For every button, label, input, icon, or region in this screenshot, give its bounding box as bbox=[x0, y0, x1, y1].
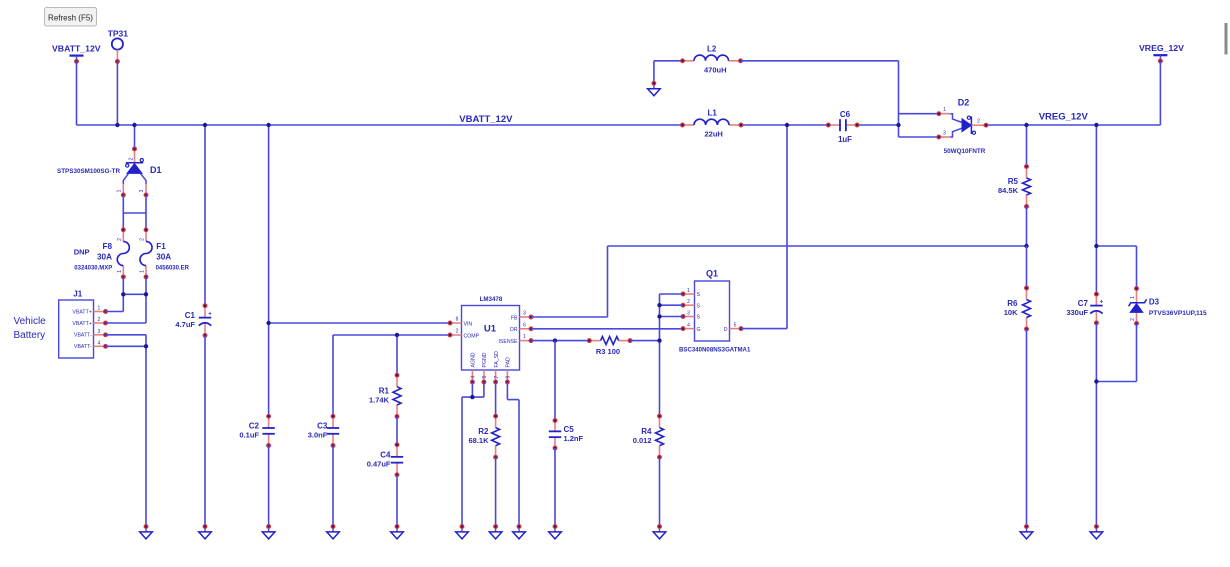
wire C3 column bbox=[332, 335, 334, 416]
wire COMP to R1 bbox=[396, 335, 398, 375]
wire C1 to ground bbox=[204, 335, 206, 526]
wire D1 anode3 down bbox=[145, 195, 147, 230]
svg-text:0.012: 0.012 bbox=[633, 436, 652, 445]
wire bus to C2 bbox=[268, 125, 270, 416]
svg-text:S: S bbox=[697, 292, 701, 298]
svg-text:22uH: 22uH bbox=[705, 130, 723, 139]
diode D2 50WQ10FNTR bbox=[937, 98, 988, 155]
wire bus to C1 bbox=[204, 125, 206, 306]
junction F1-jumper bbox=[144, 292, 148, 296]
wire L2 left to ground leg bbox=[654, 60, 683, 62]
svg-text:TP31: TP31 bbox=[108, 29, 129, 39]
ground C1 bbox=[199, 525, 212, 539]
svg-text:VBATT_12V: VBATT_12V bbox=[52, 43, 101, 53]
svg-text:+: + bbox=[208, 312, 212, 318]
wire D3 to C7 column bottom bbox=[1096, 381, 1136, 383]
svg-text:Refresh (F5): Refresh (F5) bbox=[48, 14, 93, 23]
svg-text:1.2nF: 1.2nF bbox=[564, 434, 584, 443]
wire ISENSE to R3 bbox=[531, 340, 589, 342]
ground C5 bbox=[549, 525, 562, 539]
svg-text:D: D bbox=[724, 327, 728, 333]
svg-text:U1: U1 bbox=[484, 324, 497, 335]
capacitor C2 bbox=[239, 415, 274, 448]
junction VREG C7 bbox=[1094, 123, 1098, 127]
svg-text:1: 1 bbox=[117, 189, 123, 192]
wire J1 pin3 bbox=[106, 334, 147, 336]
junction pin3-pin4 bbox=[144, 344, 148, 348]
svg-text:330uF: 330uF bbox=[1066, 308, 1088, 317]
wire Q1 pin3 to rail bbox=[660, 316, 684, 318]
svg-text:R3 100: R3 100 bbox=[596, 347, 620, 356]
wire C5 to ground bbox=[554, 448, 556, 527]
wire AGND down to ground bbox=[461, 397, 463, 526]
junction C2 VIN bbox=[266, 321, 270, 325]
svg-text:PTVS36VP1UP,115: PTVS36VP1UP,115 bbox=[1149, 310, 1207, 317]
svg-text:R5: R5 bbox=[1008, 177, 1019, 186]
svg-text:PGND: PGND bbox=[482, 352, 488, 367]
ground R4 bbox=[653, 525, 666, 539]
svg-text:50WQ10FNTR: 50WQ10FNTR bbox=[944, 148, 986, 155]
svg-text:3.0nF: 3.0nF bbox=[308, 430, 328, 439]
svg-text:1uF: 1uF bbox=[838, 135, 852, 144]
svg-text:1: 1 bbox=[1130, 296, 1136, 299]
svg-text:VIN: VIN bbox=[464, 321, 473, 327]
wire J1 pin4 bbox=[106, 345, 147, 347]
wire VIN line bbox=[269, 322, 450, 324]
svg-text:3: 3 bbox=[943, 130, 946, 136]
svg-text:C4: C4 bbox=[380, 450, 391, 459]
svg-text:STPS30SM100SG-TR: STPS30SM100SG-TR bbox=[57, 168, 120, 175]
wire R2 to ground bbox=[495, 457, 497, 526]
wire VBATT_12V bus bbox=[77, 124, 683, 126]
svg-text:1: 1 bbox=[943, 107, 946, 113]
capacitor C1 bbox=[175, 304, 212, 337]
fuse F8 bbox=[74, 228, 129, 279]
svg-text:1: 1 bbox=[98, 306, 101, 312]
wire C2 to ground bbox=[268, 446, 270, 527]
junction bus D1 bbox=[132, 123, 136, 127]
svg-text:2: 2 bbox=[140, 238, 146, 241]
fuse F1 bbox=[140, 228, 190, 279]
wire jumper fuse bottoms bbox=[123, 293, 146, 295]
wire Q1 drain to switch node bbox=[741, 328, 787, 330]
wire C3 to ground bbox=[332, 446, 334, 527]
terminal VREG_12V bbox=[1153, 55, 1167, 63]
wire C4 to ground bbox=[396, 475, 398, 527]
wire Q1 source rail bbox=[659, 294, 661, 416]
wire D2 input vertical bbox=[898, 61, 900, 137]
resistor R4 bbox=[633, 414, 664, 459]
svg-text:3: 3 bbox=[98, 329, 101, 335]
svg-text:L1: L1 bbox=[708, 109, 718, 118]
junction rail ISENSE bbox=[657, 338, 661, 342]
svg-text:C1: C1 bbox=[185, 311, 196, 320]
wire FB vertical bbox=[607, 246, 609, 317]
ground R2 bbox=[489, 525, 502, 539]
wire R5 to FB node bbox=[1026, 207, 1028, 247]
resistor R6 bbox=[1004, 286, 1031, 331]
svg-text:R4: R4 bbox=[641, 427, 652, 436]
ground C7 bbox=[1090, 525, 1103, 539]
svg-text:R2: R2 bbox=[478, 427, 489, 436]
svg-text:4.7uF: 4.7uF bbox=[175, 320, 195, 329]
svg-text:FA_SD: FA_SD bbox=[494, 351, 500, 368]
svg-text:30A: 30A bbox=[97, 252, 112, 261]
svg-text:68.1K: 68.1K bbox=[468, 436, 489, 445]
svg-text:2: 2 bbox=[1130, 318, 1136, 321]
wire R3 to Q1 source rail bbox=[630, 340, 659, 342]
wire R4 to ground bbox=[659, 457, 661, 526]
svg-text:L2: L2 bbox=[707, 44, 717, 53]
svg-text:0324030.MXP: 0324030.MXP bbox=[74, 265, 112, 271]
junction bus switch node bbox=[785, 123, 789, 127]
svg-text:C7: C7 bbox=[1078, 299, 1089, 308]
wire F1 bottom bbox=[145, 277, 147, 323]
wire J1 pin1 to F8 bbox=[106, 311, 124, 313]
ground R6 bbox=[1020, 525, 1033, 539]
svg-text:C2: C2 bbox=[249, 421, 260, 430]
wire TP31 to bus bbox=[116, 62, 118, 126]
svg-text:C5: C5 bbox=[564, 425, 575, 434]
wire Q1 pin2 to rail bbox=[660, 304, 684, 306]
wire VREG to R5 bbox=[1026, 125, 1028, 167]
svg-text:1: 1 bbox=[687, 288, 690, 294]
svg-text:3: 3 bbox=[139, 189, 145, 192]
svg-text:7: 7 bbox=[494, 376, 500, 379]
svg-text:30A: 30A bbox=[156, 252, 171, 261]
svg-text:G: G bbox=[697, 327, 701, 333]
svg-text:1: 1 bbox=[117, 270, 123, 273]
transistor Q1 BSC340N08NS3GATMA1 bbox=[679, 269, 751, 354]
test point TP31 bbox=[108, 29, 129, 64]
junction rail pin2 bbox=[657, 303, 661, 307]
ground C3 bbox=[327, 525, 340, 539]
wire PAD leg bbox=[506, 382, 508, 400]
svg-text:+: + bbox=[1100, 300, 1104, 306]
svg-text:2: 2 bbox=[98, 317, 101, 323]
wire bus to D1 bbox=[134, 125, 136, 149]
wire J1 pin2 to F1 bbox=[106, 322, 147, 324]
terminal VBATT_12V bbox=[70, 56, 84, 64]
svg-text:9: 9 bbox=[506, 376, 512, 379]
wire Q1 pin1 to rail bbox=[660, 293, 684, 295]
wire R1 to C4 bbox=[396, 417, 398, 445]
svg-text:F1: F1 bbox=[156, 242, 166, 251]
svg-text:BSC340N08NS3GATMA1: BSC340N08NS3GATMA1 bbox=[679, 346, 751, 353]
wire PAD join bbox=[507, 399, 519, 401]
junction D2 input bus bbox=[896, 123, 900, 127]
svg-text:0.1uF: 0.1uF bbox=[239, 430, 259, 439]
ground C4 bbox=[391, 525, 404, 539]
svg-text:2: 2 bbox=[456, 329, 459, 335]
op-amp U1 LM3478 bbox=[448, 296, 533, 384]
junction bus TP31 bbox=[115, 123, 119, 127]
svg-text:5: 5 bbox=[482, 376, 488, 379]
wire J1 pin3 down to ground bbox=[145, 335, 147, 527]
svg-text:Q1: Q1 bbox=[706, 269, 718, 279]
svg-text:F8: F8 bbox=[102, 242, 112, 251]
junction FB node bbox=[1024, 244, 1028, 248]
junction bus C2 bbox=[266, 123, 270, 127]
svg-text:R6: R6 bbox=[1007, 299, 1018, 308]
wire VBATT terminal to bus bbox=[76, 61, 78, 125]
svg-text:1: 1 bbox=[523, 334, 526, 340]
svg-text:10K: 10K bbox=[1004, 308, 1018, 317]
svg-text:C6: C6 bbox=[840, 110, 851, 119]
wire COMP line bbox=[333, 334, 450, 336]
wire VREG terminal leg bbox=[1159, 61, 1161, 125]
ground L2 bbox=[648, 82, 661, 96]
wire D1 anode1 down bbox=[122, 195, 124, 230]
wire FB node to R6 bbox=[1026, 246, 1028, 288]
scrollbar thumb bbox=[1225, 23, 1228, 55]
svg-text:Battery: Battery bbox=[14, 330, 46, 341]
svg-text:VBATT-: VBATT- bbox=[74, 344, 92, 350]
junction VREG R5 bbox=[1024, 123, 1028, 127]
junction C7 D3 top bbox=[1094, 244, 1098, 248]
svg-text:4: 4 bbox=[687, 322, 690, 328]
ground C2 bbox=[262, 525, 275, 539]
svg-text:1: 1 bbox=[140, 270, 146, 273]
svg-text:4: 4 bbox=[98, 340, 101, 346]
wire AGND-PGND join bbox=[462, 396, 484, 398]
wire PAD down to ground bbox=[518, 400, 520, 527]
ground J1 bbox=[140, 525, 153, 539]
wire AGND leg bbox=[471, 382, 473, 397]
resistor R5 bbox=[998, 165, 1031, 209]
wire jumper between anode columns bbox=[123, 212, 146, 214]
svg-text:5: 5 bbox=[734, 322, 737, 328]
capacitor C4 bbox=[367, 443, 403, 477]
wire D3 column top bbox=[1136, 246, 1138, 289]
svg-text:Vehicle: Vehicle bbox=[14, 316, 47, 327]
junction F8-jumper bbox=[121, 292, 125, 296]
svg-text:VBATT-: VBATT- bbox=[74, 333, 92, 339]
junction C7 D3 bottom bbox=[1094, 379, 1098, 383]
svg-text:3: 3 bbox=[523, 311, 526, 317]
diode D3 PTVS36VP1UP,115 bbox=[1129, 287, 1207, 326]
svg-text:AGND: AGND bbox=[471, 352, 477, 367]
resistor R1 bbox=[369, 373, 401, 418]
svg-text:DNP: DNP bbox=[74, 247, 90, 256]
junction bus C1 bbox=[203, 123, 207, 127]
junction AGND join bbox=[470, 395, 474, 399]
svg-text:D1: D1 bbox=[150, 165, 162, 175]
svg-text:VBATT_12V: VBATT_12V bbox=[459, 114, 513, 125]
wire FA_SD to R2 bbox=[495, 382, 497, 416]
refresh button bbox=[45, 8, 97, 27]
svg-text:1.74K: 1.74K bbox=[369, 395, 390, 404]
wire C5 column bbox=[554, 341, 556, 421]
wire C7 to D3 top bbox=[1096, 245, 1136, 247]
svg-text:VBATT+: VBATT+ bbox=[72, 309, 91, 315]
svg-text:R1: R1 bbox=[379, 386, 390, 395]
wire L2 right bbox=[741, 60, 899, 62]
wire F8 bottom bbox=[122, 277, 124, 312]
junction COMP R1 bbox=[395, 333, 399, 337]
svg-text:S: S bbox=[697, 315, 701, 321]
svg-text:LM3478: LM3478 bbox=[480, 296, 503, 303]
wire DR line to Q1 gate bbox=[531, 328, 683, 330]
wire VREG_12V bus bbox=[986, 124, 1160, 126]
svg-text:DR: DR bbox=[510, 327, 518, 333]
wire to D2 pin1 bbox=[899, 113, 939, 115]
wire D3 bottom bbox=[1136, 323, 1138, 381]
resistor R2 bbox=[468, 414, 499, 459]
connector J1 bbox=[59, 290, 108, 358]
svg-text:J1: J1 bbox=[73, 290, 82, 299]
svg-text:3: 3 bbox=[687, 310, 690, 316]
svg-text:4: 4 bbox=[471, 376, 477, 379]
svg-text:84.5K: 84.5K bbox=[998, 186, 1019, 195]
wire VREG to C7 bbox=[1095, 125, 1097, 294]
wire PGND leg bbox=[483, 382, 485, 397]
ground PAD bbox=[513, 525, 526, 539]
svg-text:2: 2 bbox=[128, 157, 134, 160]
capacitor C7 bbox=[1066, 292, 1103, 324]
ground AGND bbox=[456, 525, 469, 539]
wire bus L1 to C6 bbox=[741, 124, 828, 126]
wire switch node vertical bbox=[786, 125, 788, 329]
capacitor C6 bbox=[827, 110, 859, 144]
svg-text:ISENSE: ISENSE bbox=[498, 339, 518, 345]
svg-text:2: 2 bbox=[117, 238, 123, 241]
svg-text:8: 8 bbox=[456, 317, 459, 323]
svg-text:D2: D2 bbox=[958, 98, 970, 108]
svg-text:FB: FB bbox=[511, 315, 518, 321]
svg-text:2: 2 bbox=[977, 119, 980, 125]
capacitor C3 bbox=[308, 415, 339, 448]
svg-text:6: 6 bbox=[523, 322, 526, 328]
svg-text:470uH: 470uH bbox=[704, 65, 727, 74]
svg-text:S: S bbox=[697, 303, 701, 309]
svg-text:VREG_12V: VREG_12V bbox=[1039, 111, 1089, 122]
svg-text:VREG_12V: VREG_12V bbox=[1139, 43, 1184, 53]
svg-text:2: 2 bbox=[687, 299, 690, 305]
svg-text:0456030.ER: 0456030.ER bbox=[156, 265, 190, 271]
wire to D2 pin3 bbox=[899, 136, 939, 138]
resistor R3 bbox=[588, 337, 632, 356]
inductor L1 bbox=[681, 109, 743, 139]
junction rail pin3 bbox=[657, 314, 661, 318]
svg-text:D3: D3 bbox=[1149, 297, 1160, 306]
svg-text:VBATT+: VBATT+ bbox=[72, 321, 91, 327]
inductor L2 bbox=[681, 44, 743, 74]
svg-text:COMP: COMP bbox=[464, 333, 480, 339]
svg-text:PAD: PAD bbox=[506, 357, 512, 368]
wire bus C6 to D2 bbox=[857, 124, 898, 126]
junction ISENSE C5 bbox=[553, 338, 557, 342]
svg-text:C3: C3 bbox=[317, 421, 328, 430]
wire FB node line bbox=[608, 245, 1027, 247]
wire C7 to ground bbox=[1095, 323, 1097, 527]
diode D1 STPS30SM100SG-TR bbox=[57, 147, 162, 197]
wire R6 to ground bbox=[1026, 329, 1028, 527]
svg-text:0.47uF: 0.47uF bbox=[367, 459, 391, 468]
wire FB from U1 bbox=[531, 316, 608, 318]
capacitor C5 bbox=[549, 419, 584, 450]
